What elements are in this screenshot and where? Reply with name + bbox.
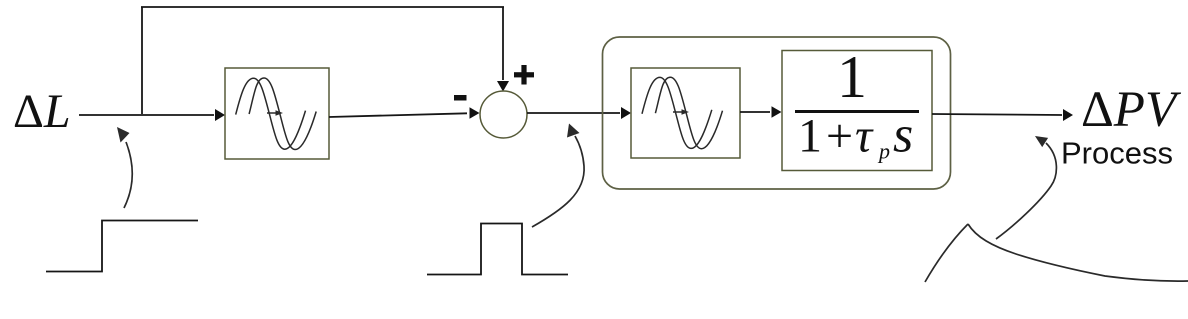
freeform response sketch long stroke (bottom right) <box>968 224 1188 281</box>
wire block2 to transfer function <box>740 106 782 118</box>
wire block1 to summer <box>329 107 480 119</box>
wire feedback vertical up segment <box>141 7 143 114</box>
wire output line <box>932 109 1073 121</box>
svg-text:ΔL: ΔL <box>13 85 71 138</box>
step signal sketch (bottom left) <box>46 221 198 272</box>
pulse signal sketch (bottom middle) <box>427 224 568 275</box>
svg-text:1+τps: 1+τps <box>798 107 913 164</box>
label minus sign <box>454 95 467 101</box>
curved annotation arrow (right to Process) <box>996 136 1056 239</box>
freeform response sketch short stroke <box>925 224 968 282</box>
wire feedback down segment into summer <box>497 7 509 92</box>
label plus sign <box>514 65 534 85</box>
block G transfer function 1/(1+tau_p s) <box>782 44 932 171</box>
svg-text:1: 1 <box>837 44 867 110</box>
svg-text:ΔPV: ΔPV <box>1081 82 1182 138</box>
block U2 sine icon inside group <box>631 68 740 158</box>
summing junction <box>480 91 527 138</box>
curved annotation arrow (left) <box>117 127 132 208</box>
curved annotation arrow (middle) <box>532 124 584 228</box>
process group rounded box <box>603 37 951 189</box>
svg-text:Process: Process <box>1061 136 1173 171</box>
block U1 valve nonlinearity (sine icon) <box>225 68 329 159</box>
wire summer to process group <box>527 107 631 119</box>
wire input line to block 1 <box>79 109 225 121</box>
wire feedback top horizontal segment <box>141 6 504 8</box>
